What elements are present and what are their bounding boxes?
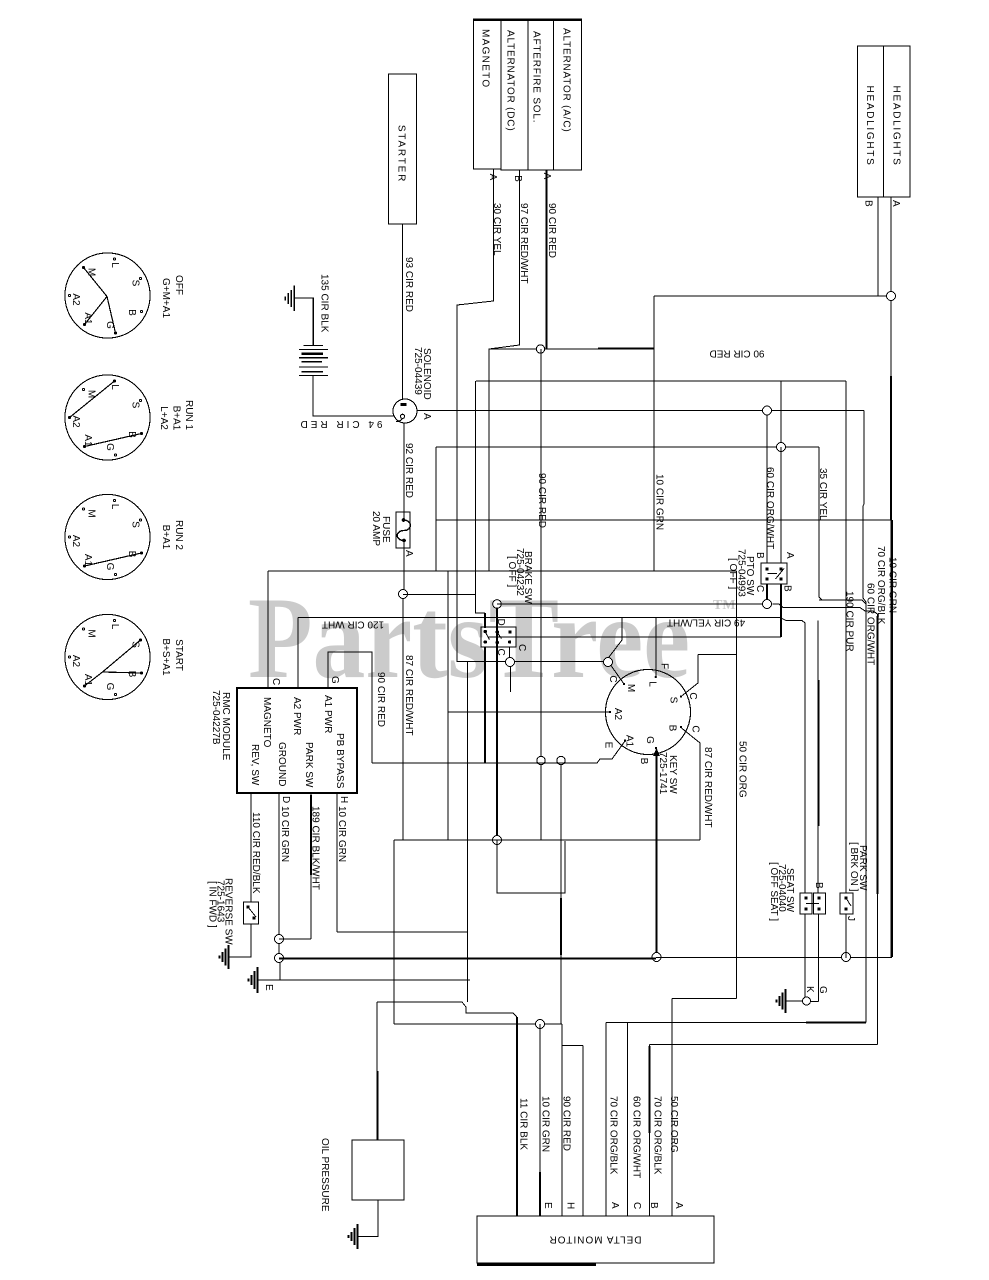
wire 60 CIR ORG/WHT PTO A bbox=[780, 447, 782, 563]
svg-text:RUN 2: RUN 2 bbox=[173, 520, 184, 550]
svg-text:START: START bbox=[173, 639, 184, 671]
wire H447 bbox=[436, 446, 777, 448]
node headlight junction bbox=[887, 292, 896, 301]
svg-text:HEADLIGHTS: HEADLIGHTS bbox=[864, 86, 875, 167]
wire RMC A2 PWR pin V298 bbox=[297, 618, 299, 689]
switch position circle RUN2 bbox=[65, 494, 150, 579]
svg-text:A: A bbox=[609, 1202, 620, 1209]
wire ground bus H957 bbox=[279, 520, 892, 959]
node junction 561,760.5 bbox=[557, 756, 565, 764]
wire 35 CIR YEL V819 bbox=[819, 447, 822, 600]
svg-text:OFF: OFF bbox=[173, 275, 184, 295]
svg-text:ALTERNATOR (A/C): ALTERNATOR (A/C) bbox=[561, 28, 572, 132]
wire key S diagonal bbox=[681, 655, 698, 697]
svg-text:S: S bbox=[130, 402, 141, 409]
battery B1 bbox=[299, 346, 328, 376]
brake switch box bbox=[481, 627, 516, 647]
svg-text:60 CIR ORG/WHT: 60 CIR ORG/WHT bbox=[865, 583, 876, 665]
wire H296 10 CIR GRN top bbox=[654, 295, 886, 297]
wire delta C 60 CIR ORG/WHT bbox=[627, 1023, 629, 1217]
alternator (DC) box bbox=[501, 19, 528, 170]
svg-text:E: E bbox=[542, 1202, 553, 1209]
wire H1024 10 CIR GRN link bbox=[394, 1023, 562, 1025]
wire starter to solenoid 93 CIR RED bbox=[402, 224, 404, 400]
svg-text:90 CIR RED: 90 CIR RED bbox=[536, 473, 547, 528]
wire delta B 70 CIR ORG/BLK bbox=[649, 1045, 651, 1217]
svg-text:B: B bbox=[512, 175, 523, 182]
wire oil pressure to ground bbox=[358, 1200, 378, 1237]
switch circle OFF internals bbox=[68, 258, 142, 335]
svg-text:A: A bbox=[890, 200, 901, 207]
svg-text:87 CIR RED/WHT: 87 CIR RED/WHT bbox=[403, 655, 414, 736]
wire RMC C pin V268 bbox=[267, 571, 269, 688]
svg-text:87 CIR RED/WHT: 87 CIR RED/WHT bbox=[702, 747, 713, 828]
node junction 497,840 bbox=[493, 836, 502, 845]
svg-text:A2: A2 bbox=[70, 535, 81, 548]
solenoid circle bbox=[393, 399, 417, 423]
seat switch internals bbox=[805, 897, 807, 899]
wire V654 10 CIR GRN bbox=[653, 296, 655, 571]
ground E symbol bbox=[249, 967, 258, 993]
svg-text:PB BYPASS: PB BYPASS bbox=[334, 733, 345, 789]
afterfire sol. box bbox=[528, 19, 554, 170]
svg-text:G: G bbox=[104, 443, 115, 451]
node key M junction bbox=[604, 658, 613, 667]
svg-text:A2: A2 bbox=[612, 708, 623, 721]
svg-text:50 CIR ORG: 50 CIR ORG bbox=[737, 741, 748, 798]
wire alternator AC A 90 CIR RED drop bbox=[546, 170, 548, 349]
wire stub V622 to key junction bbox=[609, 618, 622, 658]
svg-text:B+A1: B+A1 bbox=[160, 525, 171, 550]
wire H381 bbox=[476, 380, 846, 382]
svg-text:93 CIR RED: 93 CIR RED bbox=[403, 257, 414, 312]
wire V891 10 CIR GRN lower bbox=[890, 520, 892, 957]
wire oil pressure top 11 CIR BLK bbox=[377, 1002, 517, 1017]
svg-text:G: G bbox=[329, 676, 340, 684]
starter box bbox=[389, 74, 417, 224]
wire seat sw 2 lower bbox=[811, 914, 819, 1002]
wire reverse switch to ground bbox=[229, 924, 251, 957]
svg-text:10 CIR GRN: 10 CIR GRN bbox=[654, 474, 665, 530]
wire H655 key S link bbox=[698, 654, 737, 656]
svg-text:725-1741: 725-1741 bbox=[657, 752, 668, 795]
svg-text:PARK SW: PARK SW bbox=[303, 742, 314, 788]
node junction 656,957 bbox=[652, 953, 661, 962]
svg-text:A2: A2 bbox=[70, 293, 81, 306]
wire 87 CIR RED/WHT left V403 bbox=[402, 599, 404, 841]
ground battery bbox=[295, 298, 314, 346]
wire H840 bbox=[394, 839, 700, 841]
wire H604 bbox=[497, 604, 878, 614]
wire V476 to brake bbox=[476, 381, 486, 613]
svg-text:K: K bbox=[804, 986, 815, 993]
svg-text:C: C bbox=[270, 678, 281, 685]
svg-text:L: L bbox=[109, 262, 120, 268]
watermark PartsTree bbox=[248, 574, 736, 703]
wire delta E 10 CIR GRN bbox=[539, 1024, 541, 1216]
svg-text:50 CIR ORG: 50 CIR ORG bbox=[668, 1096, 679, 1153]
svg-text:TM: TM bbox=[713, 598, 736, 613]
svg-text:190 CIR PUR: 190 CIR PUR bbox=[844, 591, 855, 652]
svg-text:B+S+A1: B+S+A1 bbox=[160, 638, 171, 676]
svg-text:10 CIR GRN: 10 CIR GRN bbox=[540, 1096, 551, 1152]
svg-text:DELTA MONITOR: DELTA MONITOR bbox=[548, 1234, 641, 1245]
svg-text:A: A bbox=[403, 550, 414, 557]
node PTO junction 781,447 bbox=[777, 443, 786, 452]
svg-text:MAGNETO: MAGNETO bbox=[480, 29, 491, 88]
wire key B diagonal 87 CIR RED/WHT bbox=[682, 728, 701, 840]
wire fuse to junction bbox=[403, 540, 405, 590]
wire brake D to PTO B H637 bbox=[489, 636, 781, 638]
svg-text:A1: A1 bbox=[82, 434, 93, 447]
node junction 541,349 bbox=[536, 345, 544, 353]
wire H1044 bbox=[650, 1044, 878, 1046]
wire V448 bbox=[447, 571, 449, 840]
oil pressure box bbox=[352, 1140, 404, 1200]
seat switch connector 1 bbox=[800, 893, 812, 914]
svg-text:B: B bbox=[813, 882, 824, 889]
wire V864 60 CIR ORG/WHT down right bbox=[863, 411, 866, 603]
wire solenoid to fuse 92 CIR RED bbox=[403, 423, 405, 520]
node junction 279,939 bbox=[275, 935, 284, 944]
svg-text:60 CIR ORG/WHT: 60 CIR ORG/WHT bbox=[631, 1096, 642, 1178]
svg-text:92 CIR RED: 92 CIR RED bbox=[403, 443, 414, 498]
svg-text:B: B bbox=[667, 725, 678, 732]
svg-text:A: A bbox=[673, 1202, 684, 1209]
svg-text:GROUND: GROUND bbox=[276, 742, 287, 786]
node PTO C junction bbox=[763, 600, 772, 609]
wire H998 bbox=[672, 998, 737, 1000]
wire key M diagonal bbox=[611, 666, 624, 685]
svg-text:G+M+A1: G+M+A1 bbox=[160, 278, 171, 318]
svg-text:70 CIR ORG/BLK: 70 CIR ORG/BLK bbox=[608, 1096, 619, 1175]
wire V436 bbox=[435, 447, 437, 571]
node junction 279,958 bbox=[275, 954, 284, 963]
svg-text:M: M bbox=[625, 684, 636, 692]
wire delta H 90 CIR RED bbox=[561, 1024, 563, 1216]
wire H1022 bbox=[606, 1022, 866, 1024]
wire magneto A 30 CIR YEL bbox=[457, 169, 494, 662]
svg-text:C: C bbox=[754, 585, 765, 592]
svg-text:AFTERFIRE SOL.: AFTERFIRE SOL. bbox=[531, 31, 542, 123]
wire PTO B bottom to 49 CIR YEL/WHT bbox=[780, 584, 782, 637]
svg-text:70 CIR ORG/BLK: 70 CIR ORG/BLK bbox=[652, 1096, 663, 1175]
wire key G ground bold bbox=[655, 750, 657, 953]
wire brake bottom left V485 bbox=[484, 647, 486, 763]
svg-text:S: S bbox=[130, 521, 141, 528]
brake switch internals bbox=[484, 630, 486, 632]
wire V877 70 CIR ORG/BLK bbox=[877, 614, 879, 1045]
reverse switch box bbox=[244, 902, 259, 924]
wire alternator DC B 97 CIR RED/WHT bbox=[489, 170, 520, 571]
arrowhead key G bbox=[653, 748, 660, 756]
wire H600 link bbox=[819, 600, 866, 604]
svg-text:B: B bbox=[126, 309, 137, 316]
svg-text:97 CIR RED/WHT: 97 CIR RED/WHT bbox=[518, 203, 529, 284]
switch position circle RUN1 bbox=[65, 375, 150, 460]
svg-text:REV, SW: REV, SW bbox=[249, 744, 260, 786]
svg-text:A: A bbox=[421, 413, 432, 420]
wire solenoid output H409 bbox=[417, 410, 762, 412]
switch circle START internals bbox=[68, 619, 143, 695]
wire H520 bbox=[436, 519, 891, 521]
ground oil pressure bbox=[349, 1224, 358, 1249]
reverse switch internals bbox=[247, 906, 249, 908]
switch position circle OFF bbox=[65, 253, 150, 338]
node brake top junction bbox=[493, 600, 502, 609]
svg-text:11 CIR BLK: 11 CIR BLK bbox=[518, 1098, 529, 1150]
svg-text:90 CIR RED: 90 CIR RED bbox=[375, 672, 386, 727]
svg-text:G: G bbox=[644, 736, 655, 744]
wire RMC G path 90 CIR RED bbox=[328, 652, 372, 763]
node solenoid output junction bbox=[763, 406, 772, 415]
svg-text:[ BRK ON ]: [ BRK ON ] bbox=[848, 842, 859, 892]
fuse F1 bbox=[396, 512, 410, 548]
svg-text:MAGNETO: MAGNETO bbox=[261, 697, 272, 748]
svg-text:C: C bbox=[687, 692, 698, 699]
svg-text:35 CIR YEL: 35 CIR YEL bbox=[817, 468, 828, 521]
svg-text:B: B bbox=[126, 551, 137, 558]
svg-text:10 CIR GRN: 10 CIR GRN bbox=[336, 806, 347, 862]
svg-text:725-04439: 725-04439 bbox=[412, 347, 423, 395]
wire delta A left 70 CIR ORG/BLK bbox=[605, 1023, 607, 1217]
delta monitor box bbox=[477, 1216, 714, 1263]
svg-text:A1: A1 bbox=[82, 554, 93, 567]
wire delta 11 CIR BLK bbox=[516, 1017, 518, 1216]
wire 90 CIR RED V541 bbox=[540, 349, 542, 840]
wire RMC PARK SW 189 CIR BLK/WHT bbox=[310, 793, 312, 939]
svg-text:M: M bbox=[86, 509, 97, 517]
svg-text:J: J bbox=[845, 916, 856, 921]
wire H571 bbox=[268, 570, 737, 572]
headlights box left bbox=[858, 46, 884, 197]
wire 90 CIR RED V561 to delta H bbox=[560, 765, 562, 1024]
wire 90 CIR RED bold H349 bbox=[489, 348, 654, 350]
wire H939 park link bbox=[279, 938, 311, 940]
node junction 541,760.5 bbox=[537, 756, 545, 764]
svg-text:C: C bbox=[495, 649, 506, 656]
svg-text:70 CIR ORG/BLK: 70 CIR ORG/BLK bbox=[875, 546, 886, 625]
svg-text:[ OFF SEAT ]: [ OFF SEAT ] bbox=[768, 862, 779, 921]
svg-text:M: M bbox=[86, 268, 97, 276]
svg-text:S: S bbox=[130, 641, 141, 648]
RMC module box bbox=[237, 688, 357, 793]
wire V781 from H381 bbox=[780, 381, 782, 443]
switch circle RUN1 internals bbox=[68, 379, 143, 456]
svg-text:10 CIR GRN: 10 CIR GRN bbox=[887, 557, 898, 613]
wire key A1 to E ground path bbox=[372, 741, 625, 763]
wire RMC PB BYPASS 10 CIR GRN bbox=[336, 793, 338, 932]
svg-text:[ OFF ]: [ OFF ] bbox=[506, 556, 517, 587]
svg-text:F: F bbox=[659, 663, 670, 669]
wire brake actuator V497 bbox=[496, 608, 498, 840]
svg-text:A1: A1 bbox=[82, 312, 93, 325]
wire H594 brake link bbox=[403, 594, 476, 596]
magneto box bbox=[474, 19, 502, 169]
svg-text:A1 PWR: A1 PWR bbox=[322, 695, 333, 733]
svg-text:C: C bbox=[690, 725, 701, 732]
wire PTO bottom left to junction bbox=[766, 584, 768, 600]
svg-text:30 CIR YEL: 30 CIR YEL bbox=[491, 203, 502, 256]
wire V866 down to 1022 bbox=[865, 602, 867, 1023]
svg-text:C: C bbox=[516, 644, 527, 651]
wire V467 ground branch bbox=[467, 662, 469, 1002]
wire headlight A V891 bbox=[890, 197, 892, 520]
svg-text:L+A2: L+A2 bbox=[158, 406, 169, 430]
wire 87 CIR RED/WHT detour bbox=[497, 840, 565, 893]
wire headlight B bbox=[877, 197, 879, 296]
svg-text:49 CIR YEL/WHT: 49 CIR YEL/WHT bbox=[667, 617, 745, 628]
wire V394 bbox=[393, 840, 395, 1024]
svg-text:110 CIR RED/BLK: 110 CIR RED/BLK bbox=[250, 812, 261, 894]
PTO switch internals bbox=[766, 568, 768, 570]
svg-text:E: E bbox=[263, 984, 274, 991]
svg-text:[ OFF ]: [ OFF ] bbox=[727, 558, 738, 589]
svg-text:94 CIR RED: 94 CIR RED bbox=[297, 418, 382, 429]
node ground K junction bbox=[803, 997, 811, 1005]
wire delta A right 50 CIR ORG bbox=[671, 999, 673, 1217]
park switch connector bbox=[840, 893, 853, 914]
wire RMC GROUND pin D V279 bbox=[278, 793, 280, 958]
svg-text:[ IN FWD ]: [ IN FWD ] bbox=[207, 881, 218, 928]
svg-text:725-04227B: 725-04227B bbox=[210, 690, 221, 745]
wire seat switch risers bbox=[781, 618, 818, 893]
wire V846 190 CIR PUR upper bbox=[845, 381, 847, 893]
headlights box right bbox=[884, 46, 911, 197]
wire H662 to key M junction bbox=[457, 661, 604, 663]
svg-text:ALTERNATOR (DC): ALTERNATOR (DC) bbox=[505, 30, 516, 131]
svg-text:B: B bbox=[648, 1202, 659, 1209]
wire seat sw 1 lower to ground K bbox=[805, 914, 810, 1001]
svg-text:A: A bbox=[487, 174, 498, 181]
wire PTO B top from H409 bbox=[766, 415, 768, 563]
wire delta unlabeled bbox=[562, 1046, 583, 1217]
svg-text:B: B bbox=[754, 552, 765, 559]
park switch internals bbox=[845, 897, 847, 899]
wire H712 key A2 bbox=[448, 711, 609, 713]
svg-text:H: H bbox=[338, 796, 349, 803]
svg-text:S: S bbox=[668, 697, 679, 704]
node fuse junction bbox=[399, 590, 408, 599]
wire brake bottom right V510 bbox=[510, 647, 511, 692]
svg-text:L: L bbox=[109, 504, 120, 510]
wire H932 bbox=[337, 931, 468, 933]
svg-text:10 CIR GRN: 10 CIR GRN bbox=[279, 806, 290, 862]
node brake C junction bbox=[506, 658, 515, 667]
svg-text:L: L bbox=[647, 681, 658, 687]
wire battery to solenoid 94 CIR RED bbox=[313, 376, 395, 417]
svg-text:120 CIR WHT: 120 CIR WHT bbox=[322, 619, 384, 630]
key switch internals bbox=[609, 676, 682, 749]
svg-text:G: G bbox=[104, 563, 115, 571]
wire brake top-left pin bbox=[484, 613, 486, 628]
solenoid internal contacts bbox=[401, 403, 407, 406]
svg-text:B: B bbox=[126, 431, 137, 438]
svg-text:B: B bbox=[863, 200, 874, 207]
svg-text:G: G bbox=[817, 986, 828, 994]
svg-text:C: C bbox=[631, 1202, 642, 1209]
svg-text:M: M bbox=[86, 629, 97, 637]
svg-text:60 CIR ORG/WHT: 60 CIR ORG/WHT bbox=[764, 467, 775, 549]
svg-text:90 CIR RED: 90 CIR RED bbox=[561, 1096, 572, 1151]
svg-text:L: L bbox=[109, 624, 120, 630]
svg-text:20 AMP: 20 AMP bbox=[370, 511, 381, 546]
svg-text:189 CIR BLK/WHT: 189 CIR BLK/WHT bbox=[310, 806, 321, 890]
node junction 540,1024 bbox=[536, 1020, 545, 1029]
svg-text:A2: A2 bbox=[70, 655, 81, 668]
svg-text:C: C bbox=[607, 675, 618, 682]
svg-text:L: L bbox=[109, 384, 120, 390]
svg-text:H: H bbox=[565, 1202, 576, 1209]
svg-text:HEADLIGHTS: HEADLIGHTS bbox=[891, 86, 902, 167]
svg-text:RUN 1: RUN 1 bbox=[183, 400, 194, 430]
wire V739 50 CIR ORG bbox=[736, 571, 738, 999]
svg-text:S: S bbox=[130, 280, 141, 287]
svg-text:D: D bbox=[495, 619, 506, 626]
alternator (A/C) box bbox=[554, 19, 582, 170]
svg-text:A1: A1 bbox=[623, 735, 634, 748]
svg-text:A1: A1 bbox=[82, 674, 93, 687]
svg-text:G: G bbox=[104, 683, 115, 691]
svg-text:G: G bbox=[104, 321, 115, 329]
svg-text:B: B bbox=[638, 758, 649, 765]
switch position circle START bbox=[65, 614, 150, 699]
svg-text:M: M bbox=[86, 390, 97, 398]
wire oil pressure drop bbox=[376, 1002, 378, 1140]
node junction 846,957 bbox=[842, 953, 851, 962]
wire 120 CIR WHT / 49 CIR YEL/WHT H618 bbox=[298, 617, 781, 619]
wire key F drop bbox=[655, 618, 657, 677]
wire ground E stub bbox=[258, 979, 470, 981]
svg-text:B: B bbox=[782, 585, 793, 592]
svg-text:A2: A2 bbox=[70, 415, 81, 428]
PTO switch box bbox=[761, 563, 787, 584]
switch circle RUN2 internals bbox=[68, 499, 143, 575]
svg-text:B: B bbox=[126, 671, 137, 678]
svg-text:90 CIR RED: 90 CIR RED bbox=[709, 348, 764, 359]
svg-text:90 CIR RED: 90 CIR RED bbox=[546, 203, 557, 258]
wire park switch lower 190 CIR PUR bbox=[845, 914, 847, 958]
wire RMC REV SW 110 CIR RED/BLK bbox=[250, 793, 252, 902]
svg-text:135 CIR BLK: 135 CIR BLK bbox=[319, 274, 330, 333]
svg-text:A: A bbox=[541, 173, 552, 180]
svg-text:D: D bbox=[280, 796, 291, 803]
svg-text:A: A bbox=[784, 552, 795, 559]
key switch circle bbox=[606, 670, 691, 755]
svg-text:OIL PRESSURE: OIL PRESSURE bbox=[319, 1138, 330, 1212]
ground K symbol bbox=[777, 989, 786, 1013]
svg-text:A2 PWR: A2 PWR bbox=[291, 697, 302, 735]
ground reverse switch bbox=[220, 945, 229, 969]
svg-text:E: E bbox=[603, 742, 614, 749]
seat switch connector 2 bbox=[814, 893, 826, 914]
svg-text:B+A1: B+A1 bbox=[171, 406, 182, 431]
svg-text:STARTER: STARTER bbox=[396, 125, 407, 183]
